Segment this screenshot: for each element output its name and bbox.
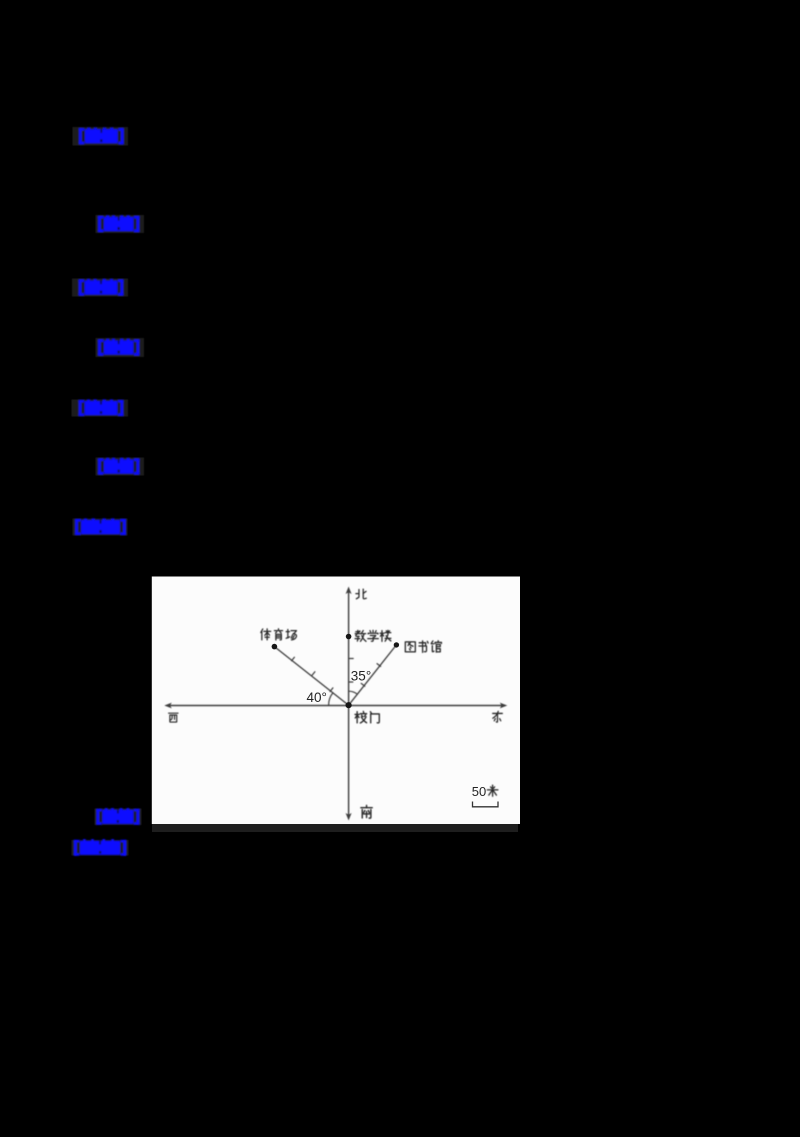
blue marker key-note <box>72 839 129 856</box>
label west 西 <box>169 713 178 722</box>
stadium tick 3 <box>330 688 333 692</box>
line to library <box>349 645 397 705</box>
library tick 2 <box>361 683 365 686</box>
stadium tick 1 <box>292 657 295 661</box>
diagram bottom shadow strip <box>152 824 518 832</box>
axis tick 1 <box>349 658 354 660</box>
east arrowhead <box>500 703 508 709</box>
label teaching building 教学楼 <box>355 630 391 641</box>
axis tick 2 <box>349 681 353 683</box>
label library 图书馆 <box>405 641 441 653</box>
library tick 1 <box>377 664 381 667</box>
35 degree arc <box>349 691 358 694</box>
library dot <box>394 642 399 647</box>
label stadium 体育场 <box>261 629 297 640</box>
north arrowhead <box>346 587 352 595</box>
south arrowhead <box>346 813 352 821</box>
stadium dot <box>272 644 278 650</box>
diagram white background <box>152 577 520 825</box>
blue marker analysis-2 <box>96 338 145 357</box>
label east 东 <box>493 711 503 722</box>
stadium tick 2 <box>312 672 315 676</box>
svg-text:35°: 35° <box>351 669 371 684</box>
40 degree arc <box>329 693 333 706</box>
west arrowhead <box>164 703 172 709</box>
teaching building dot <box>346 634 352 640</box>
svg-text:40°: 40° <box>307 690 327 705</box>
north-south axis <box>348 593 350 817</box>
blue marker answer-3 <box>72 399 129 416</box>
label school gate 校门 <box>355 711 379 723</box>
label south 南 <box>361 805 372 818</box>
label meter 米 <box>487 785 498 796</box>
blue marker answer-2 <box>72 279 128 297</box>
blue marker analysis-1 <box>96 215 145 233</box>
blue marker answer-1 <box>73 127 129 146</box>
svg-text:50: 50 <box>472 784 486 799</box>
line to stadium <box>274 647 348 706</box>
blue marker answer-4 <box>73 518 128 535</box>
blue marker analysis-3 <box>96 458 145 476</box>
blue marker analysis-4 <box>95 808 142 825</box>
scale bracket <box>473 802 499 807</box>
school gate dot <box>346 702 352 708</box>
west-east axis <box>169 705 503 707</box>
label north 北 <box>356 589 366 599</box>
